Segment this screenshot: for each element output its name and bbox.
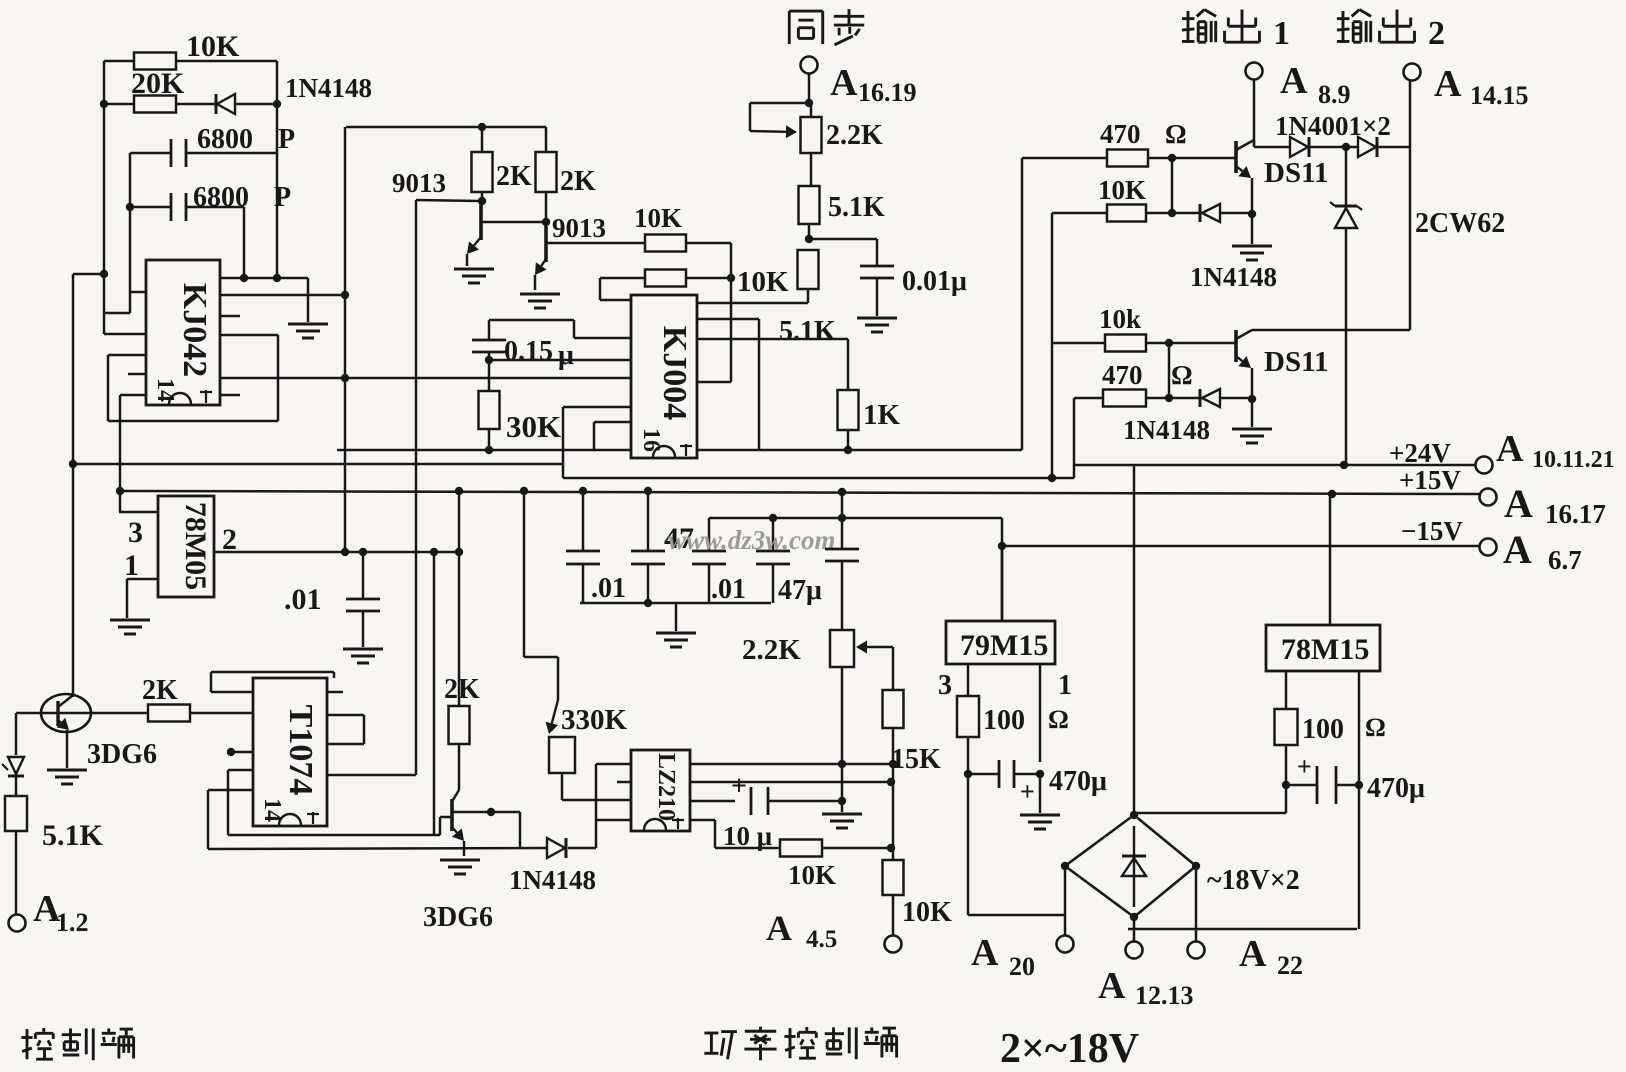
transistor Q2 9013 bar (544, 226, 548, 262)
svg-text:14.15: 14.15 (1470, 81, 1529, 110)
wire t1074 top loop (211, 672, 334, 692)
svg-text:3DG6: 3DG6 (87, 739, 157, 770)
junction v459 on +15 (455, 487, 463, 495)
label .01 a (591, 573, 626, 604)
wire kj042 long wire to KJ004 (220, 377, 631, 380)
svg-text:10K: 10K (737, 266, 789, 298)
IC KJ042 label (176, 283, 213, 377)
capacitor 0.15u (472, 340, 506, 352)
svg-text:2CW62: 2CW62 (1415, 208, 1505, 239)
wire 3dg6b emitter stem (463, 841, 466, 856)
wire t1074 bottom rail (228, 834, 440, 837)
junction v277 end (273, 274, 281, 282)
svg-text:2K: 2K (444, 674, 480, 705)
wire 10u right (768, 800, 842, 803)
wire diode-5.1K (15, 776, 18, 796)
IC 78M15 box (1266, 625, 1380, 671)
svg-text:A: A (830, 62, 858, 104)
label A12.13 A (1098, 965, 1126, 1007)
svg-text:1: 1 (124, 549, 139, 582)
wire caps left vertical (129, 153, 132, 313)
potentiometer 2.2K wiper arrow (750, 125, 797, 138)
label -15V (1401, 516, 1463, 546)
wire 30K bottom (488, 429, 491, 450)
label mu 0.15 (558, 340, 574, 371)
wire r2k1 leads (481, 127, 484, 203)
svg-text:3: 3 (128, 516, 143, 549)
IC KJ004 pin16 label (638, 428, 664, 452)
junction 470ub right (1355, 781, 1363, 789)
svg-text:DS11: DS11 (1264, 157, 1328, 189)
wire jog563 up (562, 407, 565, 464)
label A4.5 A (766, 908, 792, 948)
wire 10k2 leads (1052, 342, 1169, 345)
wire 10Ka right lead (686, 243, 731, 382)
label 10.11.21 (1532, 447, 1615, 473)
wire 470a to dot (1148, 157, 1172, 160)
svg-text:10 μ: 10 μ (723, 821, 772, 851)
label output1 num (1273, 15, 1290, 52)
label 12.13 (1135, 981, 1194, 1010)
wire t1074 pin752 stub (231, 751, 253, 754)
label 100 left (983, 705, 1025, 736)
label 1N4148 out1 (1190, 262, 1277, 292)
svg-text:1K: 1K (863, 399, 901, 431)
terminal A8.9 (1246, 63, 1263, 80)
wire LZ bottom pin (690, 820, 780, 848)
svg-text:5.1K: 5.1K (42, 819, 104, 852)
label 0.15 (504, 336, 553, 367)
transistor Q1 9013 bar (479, 204, 483, 240)
terminal A22 (1188, 942, 1205, 959)
junction pin2 v363 (359, 548, 367, 556)
junction pin2 v434 (430, 548, 438, 556)
terminal A16.17 (1480, 489, 1497, 506)
wire 0.15u top staircase (489, 320, 631, 340)
svg-text:10K: 10K (788, 860, 836, 890)
transistor 3DG6-1 ellipse (41, 694, 91, 732)
transistor Q1 emitter arrow (467, 237, 481, 254)
junction between 1N4001 (1342, 143, 1350, 151)
label 2.2K lower (742, 634, 801, 666)
label 1N4001x2 (1275, 111, 1391, 141)
svg-text:A: A (1280, 60, 1308, 102)
svg-text:+15V: +15V (1399, 465, 1461, 495)
junction bridge left (1061, 862, 1069, 870)
wire 10Ksync bottom (697, 289, 808, 303)
junction 10K-diode out1 (1168, 209, 1176, 217)
resistor 2K mv-right (536, 152, 557, 192)
svg-text:470: 470 (1100, 119, 1141, 149)
wire ds11b collector (1236, 330, 1410, 339)
wire 78m05 pin3 (119, 511, 158, 514)
capacitor 6800P lower (171, 193, 186, 221)
transistor DS11-1 emitter (1236, 166, 1251, 178)
svg-text:1N4148: 1N4148 (285, 73, 372, 103)
label A 10.11.21 A (1496, 428, 1524, 470)
wire 10K fb right (822, 847, 891, 850)
transistor 3DG6-2 emitter (452, 828, 464, 841)
terminal A12.13 (1126, 942, 1143, 959)
capacitor 470u right (1317, 766, 1336, 804)
wire bridge right leg (1195, 866, 1198, 941)
junction t1074 pin752 (227, 748, 235, 756)
junction 848 col891 (887, 844, 895, 852)
wire 470ua left lead (968, 773, 999, 776)
wire diode1 row (1172, 212, 1252, 215)
label 2.2K sync (826, 120, 883, 151)
junction 470a-10K (1168, 154, 1176, 162)
svg-text:47μ: 47μ (778, 575, 822, 606)
wire kj042 stub374 left (128, 373, 146, 376)
svg-text:P: P (278, 124, 295, 155)
capacitor 0.01u sync (860, 266, 894, 278)
label ohm right (1365, 713, 1386, 742)
junction capA on +15 (579, 487, 587, 495)
transistor DS11-2 bar (1234, 330, 1238, 362)
IC KJ042 notch (169, 393, 191, 404)
capacitor 6800P upper (171, 139, 186, 167)
label ohm lower (1171, 360, 1193, 390)
svg-text:20K: 20K (131, 67, 185, 100)
junction bridge bottom (1130, 913, 1138, 921)
label 2K mv-left (496, 161, 532, 192)
IC T1074 pin14 label (259, 798, 285, 822)
svg-text:Ω: Ω (1165, 119, 1187, 149)
wire pot-r1 (810, 103, 813, 186)
ground 3dg6a (47, 770, 87, 784)
wire caps rail (580, 603, 771, 631)
label pin1 (124, 549, 139, 582)
resistor 2K vert (449, 706, 470, 744)
wire t1074 pin775 (327, 774, 416, 777)
svg-text:2K: 2K (496, 161, 532, 192)
wire bridge top to right (1134, 785, 1286, 813)
wire ds11b emitter stem (1251, 368, 1254, 427)
svg-text:12.13: 12.13 (1135, 981, 1194, 1010)
bridge inner diode (1122, 826, 1146, 907)
svg-text:2K: 2K (142, 675, 178, 706)
wire zener col (1345, 147, 1348, 465)
junction sync node (805, 99, 813, 107)
label A 16.17 A (1504, 481, 1533, 526)
label A 6.7 A (1503, 527, 1532, 572)
svg-text:2.2K: 2.2K (826, 120, 883, 151)
IC LZ210 box (631, 750, 690, 831)
wire 10Kb leads out (1052, 212, 1172, 215)
junction 330K col on +15 (520, 487, 528, 495)
wire v416 vertical (415, 200, 418, 775)
wire t1074 pin770 loop (228, 770, 253, 835)
wire v1172 (1171, 158, 1174, 213)
label 6.7 (1548, 545, 1582, 575)
label 78M15 (1281, 633, 1369, 666)
label 1N4148 out2 (1123, 415, 1210, 445)
junction 100-470u (964, 770, 972, 778)
ground 3dg6b (440, 860, 480, 874)
svg-text:3DG6: 3DG6 (423, 902, 493, 933)
diode 1N4148 drv (547, 838, 566, 858)
transistor 3DG6-1 bar (56, 701, 59, 726)
wire LZ pin820 (596, 819, 631, 822)
wire 79 pin3 (967, 664, 970, 696)
wire col842 mid (841, 561, 844, 630)
wire bridge bottom (1128, 917, 1357, 941)
label 1N4148 drv (509, 865, 596, 895)
wire 78 left pin (1285, 671, 1288, 709)
IC LZ210 label (653, 753, 679, 821)
wire 470a row (1022, 157, 1107, 160)
wire -15V net (709, 518, 1480, 621)
label pin1 79 (1058, 670, 1072, 701)
capacitor .01 d (346, 599, 380, 611)
label power control terminal (704, 1027, 896, 1061)
junction mv rail r1 (478, 123, 486, 131)
junction 100r-470u (1282, 781, 1290, 789)
wire nest h334 (104, 333, 146, 336)
junction Q2 collector (542, 218, 550, 226)
wire 3dg6b base (440, 817, 452, 835)
junction v1052 on +24 (1048, 474, 1056, 482)
terminal A10.11.21 (1476, 457, 1493, 474)
wire A8.9 riser (1253, 79, 1256, 147)
wire nest h313 (104, 312, 130, 315)
wire 100r bottom (1285, 745, 1288, 785)
svg-text:Ω: Ω (1171, 360, 1193, 390)
svg-text:KJ004: KJ004 (656, 326, 693, 420)
svg-text:DS11: DS11 (1264, 346, 1328, 378)
IC KJ042 pin14 label (152, 378, 178, 402)
junction col891 782 (887, 778, 895, 786)
svg-text:+24V: +24V (1389, 438, 1451, 468)
label 5.1K sync (828, 192, 885, 223)
label 16.19 (858, 78, 917, 107)
terminal A14.15 (1404, 64, 1421, 81)
wire right vertical osc node (276, 61, 279, 278)
ground Q2 (520, 294, 560, 308)
wire 3dg6a emitter stem (66, 730, 69, 768)
wire base2 row (1169, 342, 1236, 345)
label 8.9 (1318, 80, 1351, 109)
svg-text:16: 16 (638, 428, 664, 452)
potentiometer 330K wiper (546, 700, 559, 734)
svg-text:78M15: 78M15 (1281, 633, 1369, 666)
wire ds11a emitter stem (1251, 178, 1254, 244)
svg-text:A: A (1098, 965, 1126, 1007)
svg-text:P: P (274, 182, 291, 213)
label 6800P upper (197, 124, 253, 155)
IC T1074 box (253, 678, 327, 826)
resistor 10K kj004-b (645, 270, 686, 287)
IC KJ042 pin1 tick (200, 390, 212, 403)
svg-text:470μ: 470μ (1367, 773, 1425, 804)
wire 3DG6 collector column (72, 274, 75, 697)
junction long378 v345 (341, 374, 349, 382)
terminal A1.2 (9, 915, 26, 932)
wire +24V bus (69, 464, 1475, 478)
svg-text:10.11.21: 10.11.21 (1532, 447, 1615, 473)
label 5.1K ctrl (42, 819, 104, 852)
wire nest loop355-421 (108, 355, 278, 421)
resistor 30K (479, 391, 500, 429)
svg-text:16.19: 16.19 (858, 78, 917, 107)
svg-text:Ω: Ω (1048, 705, 1069, 734)
IC LZ210 notch (644, 819, 666, 830)
wire pin339 to 1K (697, 339, 848, 390)
svg-text:78M05: 78M05 (179, 502, 212, 590)
svg-text:10K: 10K (1098, 175, 1146, 205)
resistor 5.1K sync (799, 186, 820, 224)
junction ds11a emitter diode (1248, 210, 1256, 218)
wire LZ pin782 stub (617, 781, 631, 784)
ground 78m05 (110, 620, 150, 634)
svg-text:A: A (1503, 527, 1532, 572)
label control terminal (21, 1028, 133, 1060)
svg-text:1: 1 (1058, 670, 1072, 701)
svg-text:6.7: 6.7 (1548, 545, 1582, 575)
wire v459 col (458, 491, 461, 706)
svg-text:2: 2 (1428, 15, 1445, 52)
wire r5k1 bottom (808, 224, 811, 239)
transistor DS11-2 emitter (1236, 356, 1251, 368)
junction +24V left end (69, 460, 77, 468)
potentiometer 2.2K lower wiper (856, 641, 893, 654)
label 18Vx2 (1207, 865, 1300, 896)
wire Q2 emitter stem (534, 275, 537, 290)
wire LZ right pin782 (690, 781, 891, 784)
transistor 3DG6-2 bar (450, 799, 454, 831)
label 470u right (1367, 773, 1425, 804)
wire 330K bottom (562, 773, 631, 800)
wire v1074 (1073, 398, 1076, 465)
wire h274 to left column (73, 273, 104, 276)
wire 10K a45 lead (892, 895, 895, 935)
svg-text:LZ210: LZ210 (653, 753, 679, 821)
label 1.2 (56, 908, 89, 937)
wire to 0.01u (809, 239, 877, 266)
svg-text:KJ042: KJ042 (176, 283, 213, 377)
label A1.2 A (33, 888, 61, 930)
label P upper (278, 124, 295, 155)
svg-text:16.17: 16.17 (1545, 499, 1606, 529)
label + 470u right (1297, 752, 1312, 781)
svg-text:.01: .01 (284, 583, 322, 616)
resistor 1K (838, 390, 859, 430)
wire kj004 pin407 (563, 406, 631, 409)
wire capD col (772, 518, 775, 603)
junction 30K on W2 (485, 446, 493, 454)
wire 470b leads (1074, 397, 1169, 400)
IC KJ042 box (146, 260, 220, 405)
label output1 chinese (1182, 10, 1260, 43)
svg-text:T1074: T1074 (282, 705, 319, 796)
wire capA col (582, 491, 585, 603)
wire v1169 (1168, 343, 1171, 398)
wire Q1 feed from v416 (416, 200, 480, 201)
label DS11 lower (1264, 346, 1328, 378)
terminal A6.7 (1480, 539, 1497, 556)
wire 78m15 feed (1329, 497, 1332, 625)
wire A14.15 riser (1409, 80, 1412, 147)
wire Q2 to 10K (546, 242, 645, 245)
label .01 c (711, 574, 746, 605)
wire 79 pin1 (1039, 664, 1042, 762)
wire t1074 pin790 loop (208, 790, 546, 849)
wire cap01d col (362, 552, 365, 647)
wire 10Kb leads (600, 278, 731, 300)
label 10K kj004-a (634, 203, 682, 233)
wire sync down (808, 73, 811, 103)
IC T1074 pin1 tick (307, 812, 319, 824)
label P lower (274, 182, 291, 213)
junction node A (100, 100, 108, 108)
label 3DG6 first (87, 739, 157, 770)
label output2 chinese (1337, 10, 1415, 43)
label 9013 Q2 (552, 213, 606, 243)
capacitor 47u a (692, 551, 726, 564)
svg-text:5.1K: 5.1K (779, 316, 836, 347)
svg-text:100: 100 (1302, 714, 1344, 745)
IC T1074 notch (279, 814, 301, 825)
label 14.15 (1470, 81, 1529, 110)
junction x104 y274 (100, 270, 108, 278)
capacitor .01 b (631, 551, 665, 564)
label 10K kj004-b (737, 266, 789, 298)
resistor 2K mv-left (472, 152, 493, 192)
junction col842 on +15 (838, 488, 846, 496)
junction 10Kb on v731 (727, 274, 735, 282)
wire bridge top col (1133, 465, 1136, 815)
svg-text:1N4001×2: 1N4001×2 (1275, 111, 1391, 141)
wire LZ left col (595, 764, 598, 848)
diode zener 2CW62 (1330, 202, 1362, 228)
watermark (668, 525, 836, 555)
svg-text:μ: μ (558, 340, 574, 371)
wire Q1 base cross (481, 221, 546, 224)
junction 10k-470 out2 (1165, 339, 1173, 347)
wire kj004 pin422 (594, 422, 631, 450)
wire right side col (1409, 147, 1412, 330)
svg-text:1N4148: 1N4148 (509, 865, 596, 895)
wire 3dg6a base line (16, 712, 148, 715)
diode 1N4148 out2 sym (1200, 389, 1220, 407)
wire kj042 stub395 right (220, 394, 240, 397)
label DS11 upper (1264, 157, 1328, 189)
junction v345 pin2row (341, 548, 349, 556)
wire cap1 leads (130, 152, 277, 155)
label 20 (1009, 952, 1035, 981)
wire v434 (433, 552, 436, 835)
resistor 10K (osc charge) (134, 53, 176, 70)
diode 1N4001 b (1358, 137, 1377, 157)
label 47u b (778, 575, 822, 606)
label 2x18V (1000, 1026, 1139, 1072)
svg-text:79M15: 79M15 (960, 629, 1048, 662)
diode ctrl vertical (2, 757, 24, 776)
wire 470ub right lead (1336, 784, 1359, 787)
junction pin2 end (455, 548, 463, 556)
wire kj042 pin stub left (130, 291, 146, 294)
resistor 470 lower (1103, 390, 1146, 407)
capacitor 47u c (825, 549, 859, 561)
label 10K a45 (902, 897, 952, 928)
junction capB on +15 (644, 487, 652, 495)
label .01 d (284, 583, 322, 616)
wire pin2 row (214, 551, 459, 554)
label 470 upper (1100, 119, 1141, 149)
label 330K (561, 704, 628, 736)
junction Q1 collector (478, 197, 486, 205)
